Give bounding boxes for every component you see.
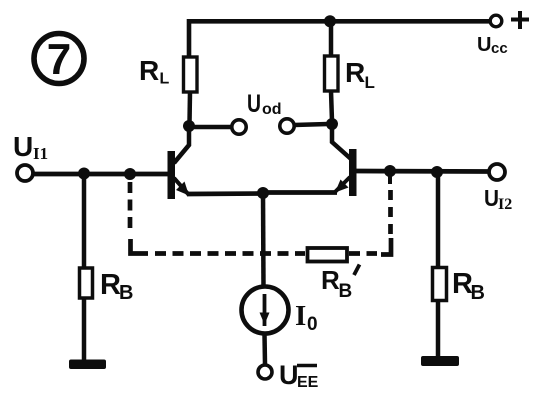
svg-text:B: B: [471, 282, 485, 304]
svg-text:R: R: [321, 265, 340, 295]
node common emitter: [257, 187, 269, 199]
wire T1 emitter to common node: [187, 191, 263, 196]
svg-text:EE: EE: [297, 374, 319, 391]
figure number 7: [34, 34, 84, 85]
node input to dashed branch: [124, 168, 136, 180]
dashed wire bottom right horizontal: [349, 251, 377, 256]
node input to RB left: [78, 168, 90, 180]
svg-text:U: U: [484, 185, 499, 211]
label Uod: [247, 90, 282, 118]
label RL right: [345, 57, 375, 92]
svg-text:R: R: [100, 269, 121, 301]
transistor T1: [168, 128, 190, 199]
resistor RL right: [325, 56, 339, 91]
label RL left: [139, 55, 170, 88]
wire corner left dashed branch: [131, 239, 149, 254]
wire collector node to Uod left terminal: [189, 125, 231, 130]
svg-text:B: B: [119, 282, 133, 304]
label Ucc: [477, 34, 508, 57]
terminal UI1: [17, 165, 33, 181]
resistor RB right: [433, 268, 447, 301]
svg-text:U: U: [279, 360, 299, 390]
wire RB left branch upper: [82, 174, 87, 268]
wire input base left: [34, 172, 170, 177]
ground right: [421, 356, 459, 366]
svg-text:U: U: [477, 34, 491, 56]
label + polarity: [511, 11, 529, 29]
wire corner right dashed branch: [381, 238, 391, 255]
wire stub below right dashed node: [388, 171, 392, 184]
svg-text:L: L: [365, 73, 375, 92]
dashed wire bottom left horizontal: [155, 251, 305, 256]
svg-text:7: 7: [47, 35, 71, 84]
label I0: [295, 300, 318, 335]
wire RB right branch upper: [436, 172, 441, 267]
node right collector: [326, 118, 338, 130]
svg-text:U: U: [247, 90, 261, 118]
wire left RL to collector node: [187, 92, 192, 123]
wire current source to UEE terminal: [262, 335, 267, 365]
current source I0: [242, 287, 289, 334]
terminal UI2: [489, 164, 505, 180]
terminal UEE: [258, 365, 272, 379]
svg-text:0: 0: [307, 314, 318, 335]
wire RB right to ground: [436, 300, 441, 358]
node base to dashed branch right: [384, 165, 396, 177]
wire top supply rail: [189, 21, 490, 59]
svg-text:U: U: [13, 131, 33, 162]
wire T2 emitter to common node: [263, 190, 337, 195]
svg-text:od: od: [262, 101, 282, 118]
wire common emitter to current source: [261, 193, 266, 288]
ground left: [69, 360, 106, 370]
svg-text:R: R: [345, 57, 365, 88]
label RB right: [452, 268, 485, 304]
dashed wire left branch vertical: [128, 182, 133, 234]
label RB left: [100, 269, 133, 304]
svg-text:B: B: [339, 281, 353, 302]
svg-text:I1: I1: [33, 144, 48, 163]
wire right RL to collector node: [331, 91, 332, 121]
node base to RB right: [431, 166, 443, 178]
wire T2 base to UI2: [356, 169, 489, 174]
resistor RB left: [80, 268, 93, 298]
wire rail to right RL: [329, 21, 334, 57]
svg-text:cc: cc: [491, 40, 508, 57]
transistor T2: [332, 127, 357, 196]
label RB': [321, 265, 360, 303]
label UI1: [13, 131, 48, 163]
svg-text:R: R: [139, 55, 159, 86]
terminal Uod left: [232, 120, 246, 134]
dashed wire right branch vertical: [388, 190, 393, 234]
svg-text:I: I: [295, 300, 306, 332]
label UEE: [279, 360, 319, 391]
resistor RL left: [184, 57, 198, 92]
wire Uod right terminal to right collector node: [294, 124, 328, 125]
svg-text:I2: I2: [498, 196, 512, 213]
wire RB left to ground: [82, 298, 87, 361]
terminal Ucc: [490, 15, 502, 27]
node top rail junction: [324, 15, 336, 27]
node left collector: [183, 120, 195, 132]
svg-text:L: L: [160, 71, 170, 88]
resistor RB': [308, 248, 348, 262]
label UI2: [484, 185, 512, 213]
terminal Uod right: [280, 119, 294, 133]
